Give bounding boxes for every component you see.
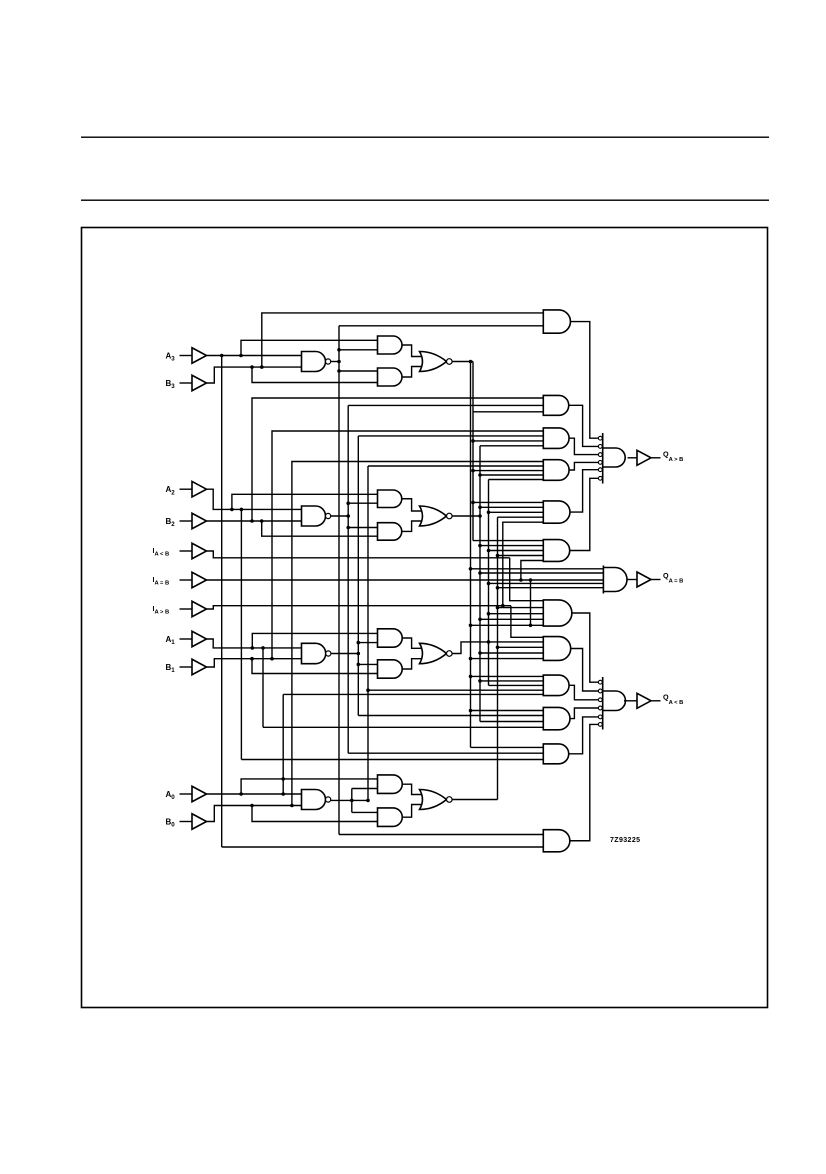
- wire net I A&gt;B: [207, 522, 544, 637]
- wire Q A<B gate output to buffer: [624, 700, 637, 702]
- input buffer B2: [180, 513, 207, 529]
- output buffer Q A>B: [637, 450, 651, 465]
- output buffer Q A<B: [637, 693, 651, 708]
- summing gate Q A>B (6-input AND, inverting inputs): [598, 433, 625, 484]
- input label A1: [166, 635, 176, 646]
- wire net E2: [452, 446, 603, 722]
- wire cell 1 AND outputs to NOR inputs: [402, 638, 422, 669]
- AND gate lower cell 0: [378, 808, 403, 827]
- AND gate term G11: [543, 744, 568, 764]
- AND gate lower cell 2: [378, 523, 402, 541]
- AND gate term G5: [543, 501, 570, 523]
- AND gate lower cell 1: [378, 660, 403, 678]
- figure border frame: [82, 228, 768, 1008]
- input buffer A0: [180, 786, 207, 802]
- wire G5 output to summing gate: [570, 470, 599, 512]
- input buffer A2: [180, 481, 207, 497]
- AND gate upper cell 1: [378, 629, 403, 647]
- wire G12 output to summing gate: [570, 724, 599, 840]
- input label B0: [166, 818, 176, 829]
- wire net I A=B: [207, 561, 604, 628]
- input label B1: [166, 663, 176, 674]
- input buffer I A=B: [180, 572, 207, 588]
- wire net A3: [207, 340, 544, 847]
- wire Q A=B buffer output: [651, 579, 661, 581]
- wire net A1: [207, 633, 544, 727]
- output label Q A>B: [663, 449, 683, 463]
- summing gate Q A<B (6-input AND, inverting inputs): [598, 677, 625, 730]
- input buffer B0: [180, 814, 207, 830]
- wire G6 output to summing gate: [570, 478, 599, 550]
- input buffer A1: [180, 631, 207, 647]
- horizontal rule top: [81, 137, 769, 138]
- NOR gate cell 1 (XNOR output E1): [420, 643, 453, 663]
- input buffer A3: [180, 348, 207, 364]
- input label A3: [166, 352, 176, 363]
- AND gate term G12: [543, 830, 570, 852]
- wire G3 output to summing gate: [569, 438, 598, 454]
- AND gate term G7: [543, 600, 572, 626]
- wire net A2: [207, 489, 544, 759]
- AND gate term G3: [543, 428, 569, 449]
- AND gate Q A=B (5-input): [603, 566, 627, 594]
- output buffer Q A=B: [637, 572, 651, 587]
- NOR gate cell 2 (XNOR output E2): [420, 506, 453, 526]
- input label B3: [166, 379, 176, 390]
- input label A0: [166, 790, 176, 801]
- wire G8 output to summing gate: [571, 649, 599, 692]
- wire net B2: [207, 398, 544, 536]
- svg-text:7Z93225: 7Z93225: [610, 837, 640, 844]
- AND gate term G9: [543, 675, 569, 696]
- input label I A>B: [153, 606, 170, 615]
- AND gate term G2: [543, 395, 568, 415]
- NAND gate cell 0: [302, 790, 331, 810]
- output label Q A=B: [663, 571, 683, 585]
- AND gate term G1: [543, 310, 570, 333]
- wire G9 output to summing gate: [569, 685, 598, 699]
- NOR gate cell 0 (XNOR output E0): [420, 790, 453, 810]
- wire Q A<B buffer output: [651, 700, 661, 702]
- output label Q A<B: [663, 692, 683, 706]
- AND gate upper cell 0: [378, 775, 403, 794]
- input buffer I A<B: [180, 543, 207, 559]
- input buffer B3: [180, 375, 207, 391]
- wire G1 output to summing gate: [570, 322, 598, 439]
- wire net N2: [331, 405, 544, 753]
- wire Q A>B gate output to buffer: [628, 457, 638, 459]
- wire Q A>B buffer output: [651, 457, 661, 459]
- AND gate term G4: [543, 460, 569, 481]
- AND gate term G6: [543, 540, 569, 562]
- AND gate upper cell 3: [378, 336, 403, 354]
- AND gate upper cell 2: [378, 490, 402, 508]
- horizontal rule second: [81, 200, 769, 201]
- input buffer I A>B: [180, 601, 207, 617]
- wire Q A=B gate output to buffer: [628, 579, 638, 581]
- wire net A0: [207, 694, 544, 795]
- NAND gate cell 1: [302, 643, 331, 663]
- input label I A<B: [153, 548, 170, 557]
- input buffer B1: [180, 659, 207, 675]
- wire cell 0 AND outputs to NOR inputs: [402, 784, 422, 817]
- wire net N1: [331, 436, 544, 716]
- wire net N3: [331, 326, 544, 835]
- input label I A=B: [153, 577, 170, 586]
- figure code label 7Z93225: [610, 837, 640, 844]
- NAND gate cell 3: [302, 352, 331, 372]
- wire net I A&lt;B: [207, 551, 544, 601]
- wire cell 3 AND outputs to NOR inputs: [402, 345, 422, 377]
- NAND gate cell 2: [302, 506, 331, 526]
- input label A2: [166, 485, 176, 496]
- wire net B3: [207, 313, 544, 383]
- wire net E3: [452, 360, 603, 748]
- AND gate term G8: [543, 637, 570, 661]
- wire net E1: [452, 480, 603, 686]
- wire G11 output to summing gate: [569, 717, 599, 754]
- wire net E0: [452, 517, 603, 799]
- wire G10 output to summing gate: [570, 708, 599, 719]
- wire net N0: [331, 466, 544, 812]
- wire cell 2 AND outputs to NOR inputs: [402, 499, 422, 532]
- wire G2 output to summing gate: [569, 405, 599, 446]
- wire G4 output to summing gate: [569, 462, 598, 470]
- wire net B0: [207, 462, 544, 822]
- NOR gate cell 3 (XNOR output E3): [420, 352, 453, 372]
- AND gate lower cell 3: [378, 368, 403, 386]
- wire G7 output to summing gate: [572, 613, 599, 682]
- AND gate term G10: [543, 707, 570, 729]
- wire net B1: [207, 431, 544, 674]
- input label B2: [166, 517, 176, 528]
